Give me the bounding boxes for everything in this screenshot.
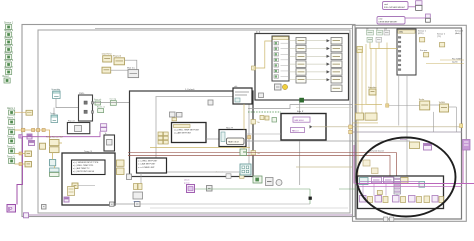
case structure E main — [130, 88, 254, 176]
svg-text:x (+) WELL TEMP SETPOINT: x (+) WELL TEMP SETPOINT — [174, 130, 200, 132]
svg-text:Sensor 7: Sensor 7 — [4, 67, 14, 70]
wire magenta bottom band — [26, 214, 352, 216]
svg-text:ToDBL: ToDBL — [439, 102, 446, 104]
wire gray row in E — [248, 105, 352, 109]
cluster constant 1 — [50, 140, 60, 146]
wire row2 drop b — [378, 43, 380, 49]
wire orange row — [15, 130, 50, 140]
tunnel below E — [127, 174, 132, 180]
ring constant — [40, 143, 46, 149]
junction — [386, 104, 389, 107]
wire purple inside S — [360, 181, 419, 183]
enum pair — [50, 168, 60, 176]
sensor 2 label — [437, 34, 446, 47]
svg-text:x >= WELL SETPOINT: x >= WELL SETPOINT — [138, 159, 158, 162]
boolean control terminal — [3, 75, 11, 83]
obtain queue node — [184, 179, 195, 193]
free label text box — [72, 160, 106, 175]
tunnels on E right edge — [251, 120, 260, 156]
boolean control terminal — [4, 29, 14, 37]
wire vertical cluster 2 — [54, 166, 56, 168]
coercion dot — [19, 152, 22, 155]
boolean control terminal — [7, 127, 16, 135]
svg-text:Sensor 2: Sensor 2 — [437, 34, 446, 36]
svg-text:Reset: Reset — [3, 75, 9, 78]
svg-text:Sensor 1: Sensor 1 — [418, 31, 427, 33]
function node — [113, 56, 125, 65]
wire vertical mid — [299, 100, 301, 185]
svg-text:x (-) AIR SETPOINT: x (-) AIR SETPOINT — [174, 132, 192, 135]
svg-text:obtain: obtain — [184, 179, 189, 182]
compare diamonds — [240, 149, 247, 156]
free label box G2 — [137, 158, 167, 173]
function node — [72, 183, 78, 189]
svg-text:network shared: network shared — [370, 150, 384, 153]
wire temp 2 row — [15, 153, 26, 155]
svg-text:Scale: Scale — [419, 99, 425, 101]
wire local2 join — [53, 108, 55, 115]
tunnel on E — [239, 89, 243, 93]
drive icon stack — [426, 14, 431, 22]
fan label — [420, 50, 429, 57]
wire magenta inner — [358, 186, 462, 188]
annotation ellipse — [357, 138, 456, 217]
svg-text:Humidity: Humidity — [52, 88, 61, 91]
queue/string node — [27, 134, 32, 139]
svg-text:Out rng: Out rng — [110, 97, 117, 100]
svg-text:queue: queue — [134, 201, 140, 203]
inner while loop in E — [156, 97, 249, 173]
queue/string node — [424, 144, 432, 151]
wire row2 drops — [370, 43, 397, 49]
comparison column 1 — [296, 38, 306, 84]
Q d terminals — [384, 217, 394, 221]
subVI node — [42, 205, 47, 210]
wire — [405, 17, 426, 19]
wire B2 down — [243, 147, 245, 150]
svg-text:x <= LOWER LIMIT: x <= LOWER LIMIT — [138, 166, 155, 169]
bool terminal x3 — [97, 106, 105, 113]
svg-text:Sensor 1: Sensor 1 — [4, 22, 14, 25]
wire green queue — [195, 188, 311, 190]
queue/string node — [29, 141, 35, 146]
node pair left — [363, 160, 378, 174]
svg-text:Wait ms: Wait ms — [127, 66, 136, 69]
wire F out — [312, 126, 459, 128]
right while loop outer frame — [353, 25, 467, 221]
S bottom cluster 3 — [393, 196, 406, 203]
svg-text:x (-) AIR TEMP TC: x (-) AIR TEMP TC — [73, 167, 90, 170]
wire D to node — [114, 203, 135, 205]
unbundle by name — [272, 36, 289, 81]
mode node pair — [356, 113, 378, 120]
function node — [25, 162, 32, 167]
io constant row 2a — [367, 37, 373, 42]
svg-text:Sensor 6: Sensor 6 — [4, 59, 14, 62]
svg-text:x (+) SENSOR INPUT TYPE: x (+) SENSOR INPUT TYPE — [73, 162, 99, 164]
svg-text:release: release — [400, 139, 407, 141]
warn dot — [282, 84, 287, 89]
wire mean row — [387, 105, 420, 107]
io constant row 1b — [376, 29, 383, 35]
bool terminal x1 — [94, 99, 101, 105]
wire long gray row — [352, 131, 462, 133]
wire tick — [111, 69, 128, 71]
queue refnum right edge — [463, 140, 471, 151]
boolean control terminal — [7, 157, 15, 164]
boolean control terminal — [4, 37, 14, 45]
index array grid — [158, 132, 168, 144]
svg-text:Elapsed: Elapsed — [113, 56, 122, 58]
S bottom node 5 — [424, 196, 430, 203]
flush queue icon — [266, 178, 274, 186]
wire faint second — [296, 107, 352, 109]
function node — [419, 99, 430, 110]
tdms labels — [452, 57, 462, 63]
svg-text:IP: IP — [8, 207, 13, 213]
function node — [368, 86, 377, 95]
right inner frame — [356, 28, 462, 219]
svg-text:x >= AIR SETPOINT: x >= AIR SETPOINT — [138, 163, 156, 166]
subVI node — [207, 186, 213, 192]
svg-text:FAN LO: FAN LO — [292, 129, 299, 132]
svg-text:FOLLOW NEW WEIGHT: FOLLOW NEW WEIGHT — [384, 7, 406, 9]
follow icon stack — [416, 1, 422, 11]
function node — [439, 102, 449, 112]
wire tan mid row — [296, 166, 352, 168]
svg-text:Sensor 3: Sensor 3 — [455, 31, 464, 33]
tunnel yellow — [460, 124, 463, 128]
junction dot — [309, 197, 312, 200]
VISA resource 'P' terminal — [7, 205, 16, 214]
wire elapsed — [125, 60, 137, 69]
arrows between columns — [289, 39, 330, 81]
wire bottom long — [140, 203, 310, 205]
wire in D — [78, 185, 95, 187]
svg-text:Alarm 1: Alarm 1 — [7, 107, 16, 110]
boolean control terminal — [4, 22, 14, 30]
svg-text:x (-) SETPOINT DELTA: x (-) SETPOINT DELTA — [73, 170, 94, 173]
wire B2 right — [246, 133, 281, 135]
wire into unbundle — [252, 41, 275, 70]
subVI node — [110, 202, 115, 206]
S wires down — [363, 183, 397, 196]
clock icon — [276, 180, 282, 186]
wire corner left — [355, 103, 382, 105]
boolean control terminal — [7, 107, 16, 115]
wire B chain — [243, 104, 245, 130]
svg-text:Simulate: Simulate — [368, 86, 377, 89]
wire purple long vertical — [17, 137, 22, 205]
svg-text:Temp Sensor Sel: Temp Sensor Sel — [46, 136, 63, 139]
enum with dots — [240, 164, 251, 175]
DAQ assistant express VI — [397, 29, 416, 75]
case structure F — [281, 110, 326, 140]
wire — [430, 104, 440, 106]
svg-text:x (-) WELL TEMP RTD: x (-) WELL TEMP RTD — [73, 165, 94, 167]
wire — [449, 106, 457, 108]
wire lower corner — [352, 122, 378, 124]
boolean control terminal — [7, 147, 15, 154]
wire numeric to frame — [15, 111, 27, 113]
svg-text:(TC): (TC) — [437, 36, 441, 38]
svg-text:T lo: T lo — [257, 153, 260, 155]
wire — [408, 6, 416, 8]
tunnels on E bottom edge — [215, 171, 244, 179]
scaling node on frame — [26, 110, 33, 115]
svg-text:Sensor 2: Sensor 2 — [4, 29, 14, 32]
S bottom cluster 2 — [375, 196, 388, 203]
svg-text:Fan pwr: Fan pwr — [420, 50, 428, 52]
S bottom cluster 6 — [432, 196, 444, 203]
case structure H — [219, 127, 246, 147]
olive node pair in E — [260, 116, 277, 123]
svg-text:(Amb): (Amb) — [455, 32, 461, 35]
wire green to S — [339, 188, 358, 190]
svg-text:cmd: cmd — [379, 19, 383, 21]
wire magenta riser — [353, 145, 355, 184]
svg-text:DRIVE NEW WEIGHT: DRIVE NEW WEIGHT — [379, 22, 399, 24]
svg-text:Alarm en: Alarm en — [97, 106, 105, 109]
string diamond on frame — [19, 135, 23, 139]
enum constant — [50, 160, 56, 166]
svg-text:Bias ▼: Bias ▼ — [297, 110, 304, 113]
S striped array column — [394, 177, 401, 195]
boolean control terminal — [7, 137, 15, 144]
numeric terminal — [50, 113, 58, 123]
sensor 3 label — [455, 31, 464, 36]
svg-text:Date/Time: Date/Time — [102, 53, 113, 56]
case structure D temperature — [62, 150, 115, 205]
svg-text:Temp: Temp — [50, 113, 56, 115]
boolean control terminal — [4, 59, 14, 67]
selector label box — [208, 100, 213, 105]
wire locals to A — [56, 99, 79, 108]
boolean control terminal — [7, 117, 16, 125]
numeric terminal — [52, 88, 61, 99]
wire dashed green in E — [248, 111, 281, 113]
wire verticals right panel — [358, 43, 456, 177]
svg-text:Sensor 4: Sensor 4 — [4, 44, 14, 47]
indicator column 2 — [331, 38, 342, 92]
wire H right long — [246, 140, 410, 142]
io constant row 1a — [366, 29, 374, 35]
wire tan row under grid — [150, 147, 250, 149]
bool terminal x2 — [110, 97, 117, 105]
S mid tan box — [377, 191, 382, 195]
case structure B — [67, 120, 89, 134]
wire purple horizontal to nodes — [22, 132, 100, 137]
wire vertical cluster — [52, 153, 54, 160]
subVI node — [135, 202, 141, 207]
sensor labels right of DAQ — [418, 31, 427, 42]
ring constants left of G2 — [117, 160, 125, 175]
stop flag node — [357, 47, 363, 53]
while loop outer frame — [22, 25, 355, 217]
wire bottom thin — [150, 207, 348, 209]
case structure sensors — [255, 32, 349, 100]
svg-text:log file: log file — [452, 61, 459, 63]
tunnel on frame edge lower — [349, 130, 353, 134]
io constant row 2b — [376, 37, 382, 42]
S bottom cluster 4 — [409, 196, 422, 203]
wire rows tdms — [440, 59, 464, 61]
wire maroon pair upper — [128, 153, 397, 176]
subVI node — [275, 84, 282, 90]
wire G2 down — [140, 173, 142, 184]
flat sequence inner frame — [38, 30, 350, 213]
boolean control terminal — [4, 52, 14, 60]
loop iteration terminal — [24, 213, 29, 218]
svg-text:HEAT ON dT: HEAT ON dT — [228, 141, 240, 144]
tunnel on frame edge upper — [349, 125, 353, 129]
formula box B — [233, 86, 252, 104]
function node — [102, 53, 113, 63]
svg-text:(RTD): (RTD) — [418, 33, 424, 35]
svg-text:FAN HIGH: FAN HIGH — [295, 119, 305, 122]
svg-text:Sensor 5: Sensor 5 — [4, 52, 14, 55]
cluster constant 2 — [50, 147, 60, 153]
S bottom cluster 1 — [360, 196, 373, 203]
wire G1 to H — [206, 138, 219, 140]
function node — [102, 67, 111, 73]
boolean control terminal — [4, 67, 14, 75]
queue/string node — [64, 197, 69, 202]
wire maroon pair lower — [128, 155, 390, 176]
free label box G1 — [172, 123, 207, 143]
S teal box right — [419, 182, 425, 188]
release queue label — [400, 139, 432, 150]
wire magenta to refnum — [462, 150, 464, 184]
iteration terminal — [259, 93, 264, 98]
wire queue down — [309, 189, 311, 204]
wire magenta panel — [355, 183, 474, 185]
wire temp 3 row — [15, 163, 26, 165]
icon stack below G2 — [133, 184, 143, 204]
wire cluster to D — [59, 142, 62, 144]
S top icons — [360, 177, 409, 184]
case structure A — [79, 93, 94, 121]
wire to structure E — [93, 102, 130, 104]
wire across top — [95, 28, 352, 30]
coercion diamond — [248, 136, 251, 139]
function node — [25, 151, 32, 156]
svg-text:DAQ: DAQ — [399, 31, 404, 34]
compare icons in E — [170, 112, 183, 121]
coercion dot — [19, 163, 22, 166]
bool pair — [253, 176, 262, 183]
subVI node — [127, 66, 139, 77]
case structure S publish — [358, 176, 444, 209]
boolean control terminal — [4, 44, 14, 52]
io constant row 1c — [384, 29, 390, 35]
svg-text:Alarm 2: Alarm 2 — [7, 117, 16, 120]
case structure C — [104, 133, 115, 151]
svg-text:Alarm 3: Alarm 3 — [7, 127, 16, 130]
tunnel bool — [300, 98, 304, 102]
svg-text:cmd: cmd — [384, 4, 388, 6]
junction dots — [21, 128, 25, 132]
string constant pair — [101, 124, 107, 132]
array glyph in D — [68, 187, 75, 196]
svg-text:Sensor 3: Sensor 3 — [4, 37, 14, 40]
drive weight control — [377, 17, 405, 25]
follow weight control — [383, 2, 409, 10]
